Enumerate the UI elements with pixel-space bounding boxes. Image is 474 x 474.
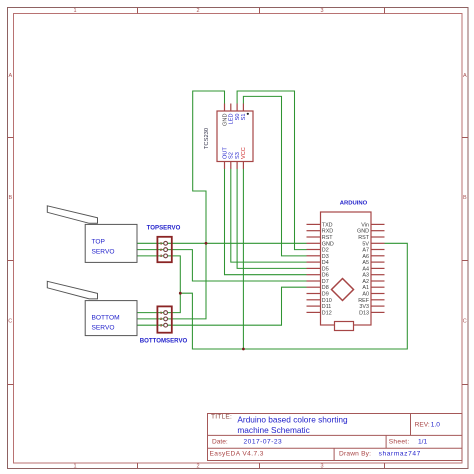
svg-text:D2: D2: [322, 248, 329, 254]
svg-text:SERVO: SERVO: [92, 324, 115, 331]
junction GND net at TOPSERVO row1: [205, 242, 208, 245]
svg-text:A2: A2: [362, 279, 369, 285]
svg-text:1.0: 1.0: [431, 422, 440, 429]
svg-text:D13: D13: [359, 310, 369, 316]
svg-text:S2: S2: [229, 152, 235, 159]
pin D6 of ARDUINO (left): [307, 274, 321, 276]
pin 5V of ARDUINO (right): [371, 242, 385, 244]
pin REF of ARDUINO (right): [371, 299, 385, 301]
wire VCC net: TOPSERVO pin3 to BOTTOMSERVO pin1: [137, 256, 180, 313]
svg-text:D8: D8: [322, 285, 329, 291]
pin GND of TCS230: [224, 104, 226, 112]
pin D8 of ARDUINO (left): [307, 286, 321, 288]
svg-text:D10: D10: [322, 298, 332, 304]
pin D3 of ARDUINO (left): [307, 255, 321, 257]
connector TOPSERVO: [147, 225, 181, 263]
pin D5 of ARDUINO (left): [307, 267, 321, 269]
svg-text:A1: A1: [362, 285, 369, 291]
svg-text:S1: S1: [241, 114, 247, 121]
svg-text:REF: REF: [358, 298, 369, 304]
svg-text:3: 3: [160, 254, 162, 258]
svg-text:1: 1: [73, 8, 76, 14]
wire S3 to D5: [237, 169, 306, 268]
pin A1 of ARDUINO (right): [371, 286, 385, 288]
svg-text:TOP: TOP: [92, 238, 106, 245]
svg-text:B: B: [8, 195, 12, 201]
wire OUT to D6: [225, 169, 307, 275]
svg-text:5V: 5V: [362, 241, 369, 247]
svg-text:A: A: [463, 73, 467, 79]
svg-text:Drawn By:: Drawn By:: [339, 450, 371, 457]
svg-text:BOTTOMSERVO: BOTTOMSERVO: [140, 338, 188, 345]
svg-text:D7: D7: [322, 279, 329, 285]
svg-text:1: 1: [73, 464, 76, 470]
svg-text:GND: GND: [222, 114, 228, 126]
svg-text:A0: A0: [362, 292, 369, 298]
title block: [208, 414, 463, 461]
svg-text:D5: D5: [322, 266, 329, 272]
svg-text:GND: GND: [357, 229, 369, 235]
pin D13 of ARDUINO (right): [371, 311, 385, 313]
pin GND of ARDUINO (right): [371, 230, 385, 232]
wire S1 to D3: [243, 96, 306, 256]
svg-text:2017-07-23: 2017-07-23: [244, 438, 283, 445]
pin A5 of ARDUINO (right): [371, 261, 385, 263]
pin RST of ARDUINO (left): [307, 236, 321, 238]
pin S0 of TCS230: [236, 104, 238, 112]
servo motor TOP SERVO: [47, 206, 137, 263]
decorative diamond: [332, 279, 354, 301]
wire VCC net: TCS230 VCC down to 5V rail: [242, 169, 244, 349]
pin GND of ARDUINO (left): [307, 242, 321, 244]
svg-text:3: 3: [320, 464, 323, 470]
pin S3 of TCS230: [236, 162, 238, 170]
pin D7 of ARDUINO (left): [307, 280, 321, 282]
pin LED of TCS230: [230, 104, 232, 112]
pin D2 of ARDUINO (left): [307, 249, 321, 251]
svg-text:2: 2: [160, 248, 162, 252]
svg-text:sharmaz747: sharmaz747: [379, 450, 421, 457]
pin S2 of TCS230: [230, 162, 232, 170]
pin 1 marker dot: [247, 113, 249, 115]
wire GND net: horizontal TOP SERVO row1 to Arduino GND: [137, 242, 307, 244]
svg-text:RXD: RXD: [322, 229, 333, 235]
svg-text:machine Schematic: machine Schematic: [237, 425, 309, 435]
pin OUT of TCS230: [224, 162, 226, 170]
svg-text:SERVO: SERVO: [92, 248, 115, 255]
pin A4 of ARDUINO (right): [371, 267, 385, 269]
svg-text:2: 2: [196, 464, 199, 470]
svg-text:C: C: [8, 319, 12, 325]
svg-text:A6: A6: [362, 254, 369, 260]
svg-text:GND: GND: [322, 241, 334, 247]
wire TOPSERVO pin2 to D7: [137, 250, 307, 281]
wire S2 to D4: [231, 169, 307, 262]
pin RST of ARDUINO (right): [371, 236, 385, 238]
pin S1 of TCS230: [242, 104, 244, 112]
pin VCC of TCS230: [242, 162, 244, 170]
svg-text:1: 1: [160, 311, 162, 315]
svg-text:3: 3: [320, 8, 323, 14]
pin A7 of ARDUINO (right): [371, 249, 385, 251]
svg-text:TOPSERVO: TOPSERVO: [147, 225, 181, 232]
svg-text:D4: D4: [322, 260, 329, 266]
svg-text:2: 2: [160, 317, 162, 321]
svg-text:A3: A3: [362, 273, 369, 279]
wire S0 to D2: [237, 91, 306, 250]
svg-text:D9: D9: [322, 292, 329, 298]
svg-text:OUT: OUT: [222, 147, 228, 159]
connector BOTTOMSERVO: [140, 306, 188, 344]
svg-text:B: B: [463, 195, 467, 201]
pin RXD of ARDUINO (left): [307, 230, 321, 232]
svg-text:REV:: REV:: [415, 422, 430, 429]
pin A2 of ARDUINO (right): [371, 280, 385, 282]
svg-text:EasyEDA V4.7.3: EasyEDA V4.7.3: [210, 450, 264, 457]
svg-text:S3: S3: [235, 152, 241, 159]
svg-text:TXD: TXD: [322, 222, 333, 228]
pin D12 of ARDUINO (left): [307, 311, 321, 313]
color sensor TCS230: [204, 104, 253, 170]
svg-text:A: A: [8, 73, 12, 79]
svg-text:3V3: 3V3: [359, 304, 369, 310]
svg-text:Arduino based colore shorting: Arduino based colore shorting: [237, 414, 348, 424]
svg-text:2: 2: [196, 8, 199, 14]
pin Vin of ARDUINO (right): [371, 223, 385, 225]
svg-text:D6: D6: [322, 273, 329, 279]
wire GND net: TCS230 GND loop down to junction and BOTTOMSERVO pin2: [137, 91, 225, 319]
svg-text:TITLE:: TITLE:: [211, 414, 232, 421]
svg-text:A4: A4: [362, 266, 369, 272]
svg-text:BOTTOM: BOTTOM: [92, 314, 120, 321]
pin A0 of ARDUINO (right): [371, 293, 385, 295]
svg-text:1/1: 1/1: [418, 438, 427, 445]
svg-text:D3: D3: [322, 254, 329, 260]
svg-text:Date:: Date:: [212, 438, 228, 445]
svg-text:3: 3: [160, 324, 162, 328]
wire BOTTOMSERVO pin3 to D8: [137, 287, 307, 325]
pin D10 of ARDUINO (left): [307, 299, 321, 301]
svg-text:RST: RST: [322, 235, 333, 241]
svg-text:ARDUINO: ARDUINO: [340, 201, 368, 207]
svg-text:Vin: Vin: [361, 222, 369, 228]
svg-text:D12: D12: [322, 310, 332, 316]
pin D11 of ARDUINO (left): [307, 305, 321, 307]
svg-text:A7: A7: [362, 248, 369, 254]
microcontroller ARDUINO: [307, 201, 385, 331]
svg-text:S0: S0: [235, 114, 241, 121]
pin D9 of ARDUINO (left): [307, 293, 321, 295]
svg-text:RST: RST: [358, 235, 369, 241]
pin D4 of ARDUINO (left): [307, 261, 321, 263]
svg-text:C: C: [463, 319, 467, 325]
svg-text:1: 1: [160, 242, 162, 246]
svg-text:D11: D11: [322, 304, 332, 310]
pin 3V3 of ARDUINO (right): [371, 305, 385, 307]
svg-text:Sheet:: Sheet:: [389, 438, 410, 445]
pin TXD of ARDUINO (left): [307, 223, 321, 225]
svg-text:LED: LED: [229, 114, 235, 125]
junction VCC net at 5V rail: [242, 348, 245, 351]
crystal rectangle: [335, 322, 354, 331]
svg-text:VCC: VCC: [241, 147, 247, 159]
svg-text:A5: A5: [362, 260, 369, 266]
servo motor BOTTOM SERVO: [47, 281, 137, 335]
pin A3 of ARDUINO (right): [371, 274, 385, 276]
wire VCC net: branch to 5V rail and Arduino 5V: [180, 243, 407, 349]
svg-text:TCS230: TCS230: [204, 128, 210, 149]
pin A6 of ARDUINO (right): [371, 255, 385, 257]
junction VCC net branch: [179, 292, 182, 295]
